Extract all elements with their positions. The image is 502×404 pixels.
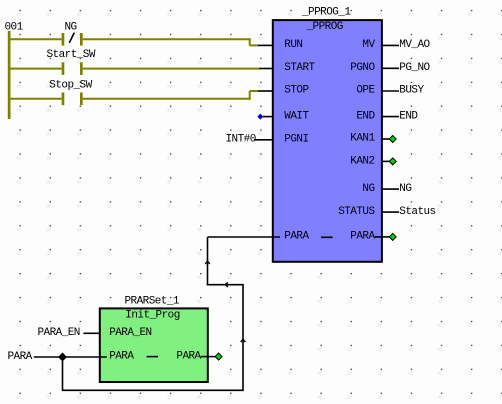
svg-text:STOP: STOP [284, 85, 309, 97]
svg-text:PG_NO: PG_NO [399, 62, 430, 74]
svg-text:NG: NG [399, 183, 411, 195]
svg-text:MV_AO: MV_AO [399, 39, 430, 51]
svg-text:001: 001 [5, 22, 24, 34]
svg-text:KAN2: KAN2 [350, 155, 374, 167]
svg-text:Status: Status [399, 206, 435, 218]
svg-text:PARA: PARA [109, 351, 134, 363]
svg-text:PARA: PARA [284, 231, 309, 243]
svg-text:INT#0: INT#0 [226, 134, 256, 146]
svg-text:PRARSet_1: PRARSet_1 [125, 296, 180, 308]
svg-text:Stop_SW: Stop_SW [49, 80, 92, 92]
svg-text:MV: MV [362, 39, 375, 51]
svg-text:PARA_EN: PARA_EN [109, 327, 151, 339]
svg-text:PARA: PARA [176, 351, 201, 363]
svg-text:KAN1: KAN1 [350, 133, 375, 145]
svg-text:PARA_EN: PARA_EN [38, 327, 80, 339]
svg-text:RUN: RUN [284, 39, 302, 51]
svg-text:NG: NG [362, 183, 374, 195]
svg-text:WAIT: WAIT [284, 110, 309, 122]
svg-text:STATUS: STATUS [338, 206, 375, 218]
svg-text:Start_SW: Start_SW [47, 49, 96, 61]
svg-text:_PPROG: _PPROG [306, 21, 343, 33]
svg-text:_PPROG_1: _PPROG_1 [301, 7, 351, 19]
svg-text:NG: NG [65, 22, 77, 34]
svg-text:PGNO: PGNO [350, 62, 375, 74]
svg-text:START: START [284, 62, 315, 74]
svg-text:PARA: PARA [8, 351, 33, 363]
svg-text:END: END [399, 110, 418, 122]
svg-text:END: END [356, 110, 375, 122]
svg-text:Init_Prog: Init_Prog [125, 310, 179, 322]
svg-text:PGNI: PGNI [284, 134, 308, 146]
svg-text:BUSY: BUSY [399, 85, 424, 97]
svg-text:OPE: OPE [356, 85, 375, 97]
svg-text:PARA: PARA [350, 231, 375, 243]
